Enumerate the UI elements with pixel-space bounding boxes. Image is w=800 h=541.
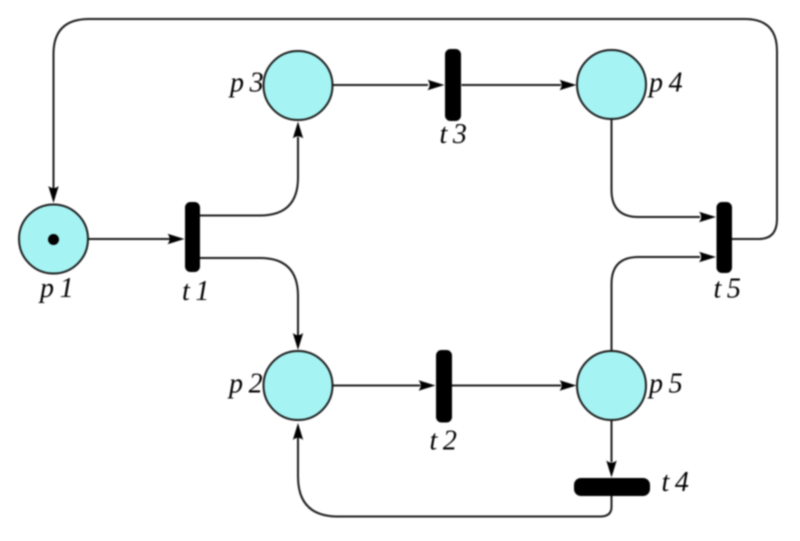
svg-text:t 1: t 1	[182, 276, 209, 307]
place p2	[264, 351, 333, 420]
place p4	[577, 50, 646, 119]
wire p3 to t3	[333, 84, 429, 86]
svg-text:p 3: p 3	[228, 68, 264, 99]
wire p2 to t2	[333, 385, 421, 387]
svg-text:p 2: p 2	[227, 369, 263, 400]
arrowhead into t4 (down)	[606, 461, 616, 478]
arrowhead into p2 from t1 (down)	[293, 333, 303, 350]
arrowhead into t2 (right)	[419, 380, 436, 390]
wire t1 to p3	[199, 137, 298, 216]
place p3	[264, 51, 333, 120]
svg-text:t 3: t 3	[440, 119, 467, 150]
wire t1 to p2	[199, 258, 298, 336]
wire p4 to t5	[612, 119, 701, 217]
place p1	[19, 205, 88, 274]
arrowhead into t5 lower (right)	[699, 252, 716, 262]
wire p1 to t1	[88, 238, 173, 240]
wire t2 to p5	[452, 385, 561, 387]
transition t2	[436, 350, 452, 423]
wire p5 to t4	[611, 420, 613, 462]
transition t4	[574, 478, 650, 496]
transition t5	[717, 202, 733, 273]
svg-text:t 5: t 5	[714, 274, 741, 305]
arrowhead into t1 (right)	[168, 234, 185, 244]
svg-text:p 1: p 1	[38, 273, 74, 304]
transition t1	[185, 202, 200, 272]
svg-text:t 2: t 2	[430, 426, 457, 457]
svg-text:t 4: t 4	[662, 467, 689, 498]
transition t3	[445, 49, 461, 121]
wire t4 to p2	[298, 438, 612, 517]
svg-text:p 5: p 5	[647, 369, 683, 400]
arrowhead into t3 (right)	[428, 80, 445, 90]
arrowhead into p2 from t4 (up)	[293, 423, 303, 440]
arrowhead into p5 (right)	[560, 380, 577, 390]
wire arc t5 to p1 (right side, top, left side)	[54, 19, 778, 239]
arrowhead into p1 (down)	[48, 186, 58, 203]
token in p1	[48, 234, 59, 245]
place p5	[577, 351, 646, 420]
arrowhead into p4 (right)	[560, 80, 577, 90]
arrowhead into t5 upper (right)	[699, 212, 716, 222]
wire t3 to p4	[462, 84, 562, 86]
wire p5 to t5	[612, 257, 701, 351]
arrowhead into p3 (up)	[293, 122, 303, 139]
svg-text:p 4: p 4	[647, 68, 683, 99]
